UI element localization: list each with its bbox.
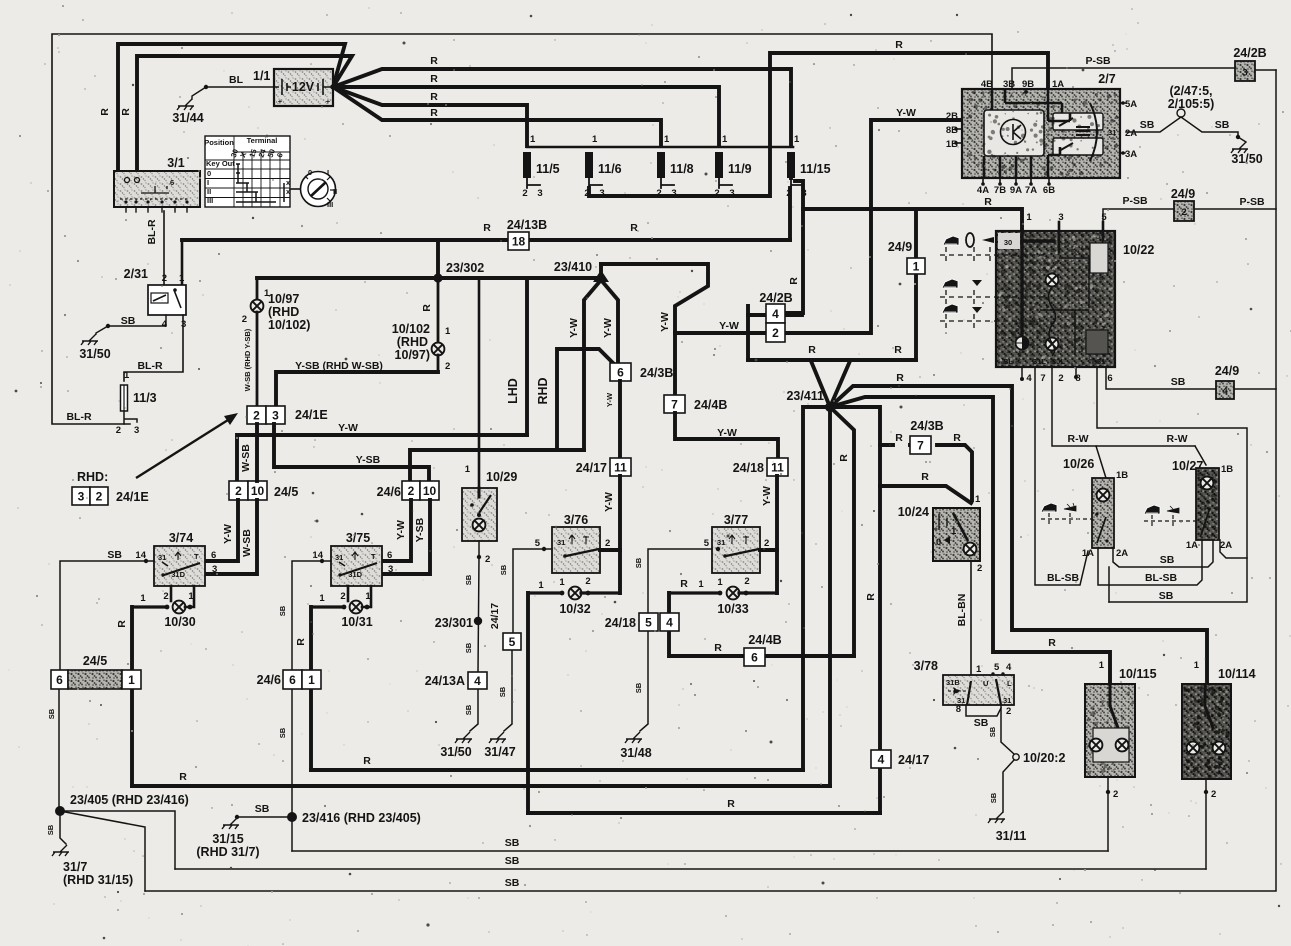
node 23/416 [287,812,297,822]
svg-text:6: 6 [1107,373,1112,384]
connector 24/5 2|10 [229,481,248,500]
wire 23/405 to SB bus2 [60,811,175,869]
wire R feed to 10/22 pin1 [803,209,1022,231]
svg-text:SB: SB [505,837,520,849]
svg-text:10/31: 10/31 [341,615,372,629]
svg-text:2: 2 [585,576,590,587]
svg-text:SB: SB [505,877,520,889]
svg-text:0: 0 [308,168,312,177]
ground 31/15 to node 23/416 [222,818,239,829]
connector 24/1E [247,406,266,424]
battery B+ node and wire BL to ground [206,86,274,88]
svg-text:10/26: 10/26 [1063,457,1094,471]
svg-text:31L: 31L [1033,357,1046,366]
svg-text:11/9: 11/9 [728,162,752,176]
svg-text:24/18: 24/18 [605,616,636,630]
wire main R line 10/97 to 23/410 [257,276,601,280]
svg-text:10/29: 10/29 [486,470,517,484]
svg-text:SB: SB [1160,554,1175,566]
svg-text:12V: 12V [292,80,315,94]
wire Y-W 24/5 pin2 to 3/74 pin6 [206,500,238,561]
svg-text:SB: SB [464,574,473,585]
ground 31/47 [489,732,506,743]
svg-text:3: 3 [1242,68,1247,79]
svg-text:2: 2 [744,576,749,587]
svg-text:2: 2 [772,326,779,340]
svg-text:1: 1 [124,370,130,381]
svg-text:6: 6 [211,550,216,561]
svg-text:7B: 7B [994,185,1006,196]
svg-text:5: 5 [994,662,1000,673]
svg-text:10/114: 10/114 [1218,667,1256,681]
svg-text:11/15: 11/15 [800,162,831,176]
window icons left of 10/22 [943,236,959,245]
svg-text:4: 4 [1026,373,1032,384]
svg-text:Y-W: Y-W [338,422,358,434]
svg-text:2: 2 [522,188,527,199]
svg-text:1B: 1B [1116,470,1128,481]
svg-text:BL-SB: BL-SB [1047,572,1079,584]
svg-text:6: 6 [751,650,758,664]
23/410 right branch Y-W [601,280,618,363]
svg-text:1: 1 [913,259,920,273]
svg-text:Y-W: Y-W [603,492,615,512]
svg-text:2: 2 [253,408,260,422]
svg-text:Y-W: Y-W [568,318,580,338]
svg-text:SB: SB [107,549,122,561]
svg-text:4: 4 [474,674,481,688]
fan wires from 23/411 [811,361,830,407]
svg-text:SB: SB [498,686,507,697]
wire 2/31 pin1 to R bus [181,240,184,285]
svg-text:1B: 1B [1221,464,1233,475]
svg-text:T: T [371,552,376,561]
wire BL-BN 10/24 to 3/78 pin1 [970,561,972,675]
svg-text:24/5: 24/5 [83,654,107,668]
node 23/302 [433,273,442,282]
svg-text:2/7: 2/7 [1098,72,1115,86]
svg-text:10: 10 [251,484,265,498]
svg-text:SB: SB [278,727,287,738]
svg-text:R: R [808,344,816,356]
svg-text:24/13B: 24/13B [507,218,547,232]
svg-text:5A: 5A [1125,99,1137,110]
svg-text:31: 31 [1108,128,1116,137]
svg-text:R: R [896,372,904,384]
svg-text:1: 1 [664,134,670,145]
svg-text:BL-R: BL-R [66,411,91,423]
svg-text:1: 1 [1194,660,1200,671]
svg-text:10: 10 [423,484,437,498]
wire SB 10/114 pin2 to bus [1205,779,1207,869]
svg-text:Y-W: Y-W [719,320,739,332]
svg-text:7: 7 [671,397,678,411]
svg-text:Y-W: Y-W [659,312,671,332]
svg-text:2: 2 [445,361,450,372]
fuse bus pin 1 line [527,146,793,149]
svg-text:(2/47:5,: (2/47:5, [1169,84,1212,98]
svg-text:III: III [207,196,213,205]
svg-text:1: 1 [140,593,146,604]
svg-text:Position: Position [204,138,234,147]
svg-text:1A: 1A [1052,79,1064,90]
svg-text:BL: BL [1003,357,1013,366]
wire SB 10/22 pin6 to 24/9 4 [1106,367,1216,389]
wire SB 2/7 2A to ground 31/50 right [1126,117,1238,136]
svg-text:24/17: 24/17 [898,753,929,767]
icons left of 10/27 [1144,505,1160,514]
svg-text:4: 4 [666,615,673,629]
svg-text:2: 2 [96,489,103,503]
svg-text:Y-SB (RHD W-SB): Y-SB (RHD W-SB) [295,360,383,372]
svg-text:23/411: 23/411 [786,389,824,403]
svg-text:P-SB: P-SB [1085,55,1111,67]
svg-text:1A: 1A [1186,540,1198,551]
svg-text:24/5: 24/5 [274,485,298,499]
svg-text:SB: SB [988,726,997,737]
svg-text:3: 3 [537,188,542,199]
svg-text:3/76: 3/76 [564,513,588,527]
svg-text:1: 1 [308,673,315,687]
svg-text:10/102: 10/102 [392,322,430,336]
inline connector 10/20:2 [1013,754,1019,760]
svg-text:Y-SB: Y-SB [414,517,426,542]
svg-text:18: 18 [512,234,526,248]
svg-text:3: 3 [272,408,279,422]
svg-text:R: R [430,107,438,119]
svg-text:1: 1 [592,134,598,145]
lamp 10/33 with wires [669,591,718,594]
svg-text:R-W: R-W [1068,433,1089,445]
wire R to 24/3B 7 [880,445,972,500]
wire 3/1 to 2/31 BL-R [163,211,165,285]
svg-text:2: 2 [408,484,415,498]
svg-text:2: 2 [764,538,769,549]
lamp 10/32 with wires [528,591,560,594]
svg-text:3: 3 [78,489,85,503]
wire 3/78 pin8 loop SB [966,705,1001,716]
svg-text:31: 31 [335,553,343,562]
svg-text:Y-W: Y-W [896,107,916,119]
svg-text:4: 4 [162,319,168,330]
svg-text:31/48: 31/48 [620,746,651,760]
node 23/405 [55,806,65,816]
wire R bus bottom via 24/6 [311,768,803,772]
svg-text:4: 4 [878,752,885,766]
svg-text:R: R [865,593,877,601]
svg-text:2: 2 [162,273,167,284]
svg-text:Y-W: Y-W [395,520,407,540]
wire battery fan to fuses R x4 [333,69,791,146]
svg-text:30L: 30L [1052,357,1065,366]
svg-text:1/1: 1/1 [253,69,270,83]
svg-text:R: R [714,642,722,654]
arrow to 24/1E [136,420,228,478]
svg-text:24/3B: 24/3B [640,366,673,380]
svg-text:24/2B: 24/2B [1233,46,1266,60]
wire 2/31 pin4 SB to ground 31/50 [108,315,166,326]
wire R bus bottom via 24/5 [132,784,830,788]
wire 10/22 inner pin to SB net right [1097,367,1247,602]
battery 1/1 [274,69,333,106]
wire W-SB 24/5 pin10 to 3/74 pin3 [206,500,257,574]
svg-text:10/22: 10/22 [1123,243,1154,257]
wire SB 10/27 2A down [1220,540,1247,558]
wire SB 23/405 to ground 31/7 [60,816,66,844]
svg-text:I: I [207,178,209,187]
svg-text:31/47: 31/47 [484,745,515,759]
wire battery to ignition feed (R) left side [118,44,345,171]
svg-text:2: 2 [1113,789,1118,800]
wire 3/77 pin2 to Y-W line [760,548,777,552]
svg-text:R: R [984,196,992,208]
svg-text:T: T [194,552,199,561]
svg-text:2B: 2B [946,111,958,122]
svg-text:1: 1 [698,579,704,590]
svg-text:11/5: 11/5 [536,162,560,176]
svg-text:6: 6 [617,365,624,379]
svg-text:24/3B: 24/3B [910,419,943,433]
svg-text:SB: SB [499,564,508,575]
svg-text:31: 31 [1097,357,1105,366]
svg-text:6: 6 [387,550,392,561]
svg-text:24/9: 24/9 [1171,187,1195,201]
svg-text:24/2B: 24/2B [759,291,792,305]
svg-text:31: 31 [1003,696,1011,705]
wire R 10/30 to 24/5 1 to R bus [130,607,134,786]
svg-text:+: + [326,97,331,106]
svg-text:R: R [680,578,688,590]
svg-text:2A: 2A [1125,128,1137,139]
svg-text:24/4B: 24/4B [748,633,781,647]
svg-text:4B: 4B [981,79,993,90]
node 23/301 [474,617,482,625]
svg-text:23/302: 23/302 [446,261,484,275]
ignition key symbol [301,172,336,207]
lamp 10/31 with wires [347,586,350,601]
dashed actuator lines 10/22 [940,247,1048,328]
svg-text:2: 2 [116,425,121,436]
svg-text:1: 1 [365,591,371,602]
svg-text:10/20:2: 10/20:2 [1023,751,1065,765]
svg-text:4: 4 [1222,386,1228,397]
svg-text:R: R [895,432,903,444]
svg-text:III: III [327,200,333,209]
svg-text:R: R [120,108,132,116]
svg-text:24/9: 24/9 [1215,364,1239,378]
svg-text:RHD:: RHD: [77,470,108,484]
svg-text:10/30: 10/30 [164,615,195,629]
svg-text:31: 31 [158,553,166,562]
wire P-SB right vertical 24/2B3 to bottom [145,70,1276,891]
svg-text:3: 3 [134,425,139,436]
23/410 left branch Y-W [584,280,601,450]
svg-text:R: R [179,771,187,783]
wire 3/76 pin2 to Y-W line [600,548,620,552]
svg-text:24/17: 24/17 [489,603,501,629]
svg-text:1: 1 [951,526,957,537]
wire SB 3/75 pin14 to 24/6 6 and 23/416 [292,561,331,851]
wire 10/33 pin1 to 24/18 4 and 24/4B 6 [669,593,854,656]
svg-text:5: 5 [535,538,541,549]
svg-text:6: 6 [289,673,296,687]
svg-text:SB: SB [278,605,287,616]
connector 24/4B 7 [664,395,685,413]
connector 24/17 4 on R line [871,750,891,768]
connector 24/3B 6 [610,363,631,381]
svg-text:BL-R: BL-R [146,219,158,244]
wire R 24/2B pin2 to 23/411 and 24/9 pin1 [748,358,916,362]
svg-text:1: 1 [1026,212,1032,223]
svg-text:SB: SB [1215,119,1230,131]
svg-text:R: R [895,39,903,51]
svg-text:(RHD: (RHD [397,335,428,349]
svg-text:R: R [953,432,961,444]
svg-text:+: + [278,97,283,106]
svg-text:Y-W: Y-W [761,486,773,506]
svg-text:R: R [788,277,800,285]
icons left of 10/26 [1041,503,1057,512]
wire Y-W 23/410 line to 24/2B pin2 and 2/7 2B [675,306,748,360]
svg-text:23/410: 23/410 [554,260,592,274]
wire R 10/32 to R bus [526,593,530,813]
ground 31/50 right [1231,142,1248,153]
wire Y-W lower horizontal to 24/6 pin2 [410,450,584,481]
wire BL-SB 10/22 pin7 to 10/26 1A [1035,367,1088,585]
svg-text:1: 1 [1099,660,1105,671]
wire Y-SB from 24/1E pin3 to 24/6 pin10 [274,424,429,481]
svg-text:31/7: 31/7 [63,860,87,874]
svg-text:3/78: 3/78 [914,659,938,673]
svg-text:SB: SB [1171,376,1186,388]
wire Y-W 24/18 to 3/77 pin2 [775,476,779,593]
svg-text:SB: SB [974,717,989,729]
svg-text:23/405 (RHD 23/416): 23/405 (RHD 23/416) [70,793,189,807]
svg-text:10/24: 10/24 [898,505,929,519]
svg-text:Y-W: Y-W [222,524,234,544]
svg-text:31/50: 31/50 [79,347,110,361]
svg-text:3/74: 3/74 [169,531,193,545]
svg-text:31/44: 31/44 [172,111,203,125]
pin 8 stub 10/22 [1075,367,1077,376]
svg-text:31: 31 [557,538,565,547]
ground 31/44 [177,99,194,110]
svg-text:RHD: RHD [536,377,550,404]
wire Y-W 24/17 to 3/76 pin2 [618,476,622,593]
svg-text:BL-BN: BL-BN [956,594,968,627]
svg-text:2/105:5): 2/105:5) [1168,97,1215,111]
svg-text:24/4B: 24/4B [694,398,727,412]
svg-text:10/115: 10/115 [1119,667,1157,681]
power window control unit 10/22 [996,231,1115,367]
svg-text:31/15: 31/15 [212,832,243,846]
svg-text:SB: SB [47,708,56,719]
wire R to 10/24 pin1 [880,486,971,503]
svg-text:2A: 2A [1116,548,1128,559]
SB bus lines bottom [292,850,1108,852]
svg-text:II: II [333,187,337,196]
svg-text:10/32: 10/32 [559,602,590,616]
svg-text:R: R [99,108,111,116]
svg-text:31/50: 31/50 [440,745,471,759]
svg-text:R: R [630,222,638,234]
svg-text:W-SB: W-SB [240,444,252,472]
svg-text:2: 2 [235,484,242,498]
svg-text:R: R [727,798,735,810]
ignition position/terminal table [205,136,290,207]
wire BL-R loop: fuse 11/3 to relay 2/7 pin 4B via outer frame [52,34,992,424]
svg-text:1: 1 [976,664,982,675]
svg-text:0: 0 [207,169,211,178]
svg-text:9B: 9B [1022,79,1034,90]
svg-text:2: 2 [485,554,490,565]
ground 31/50 left [81,334,98,345]
connector 24/17 11 [610,458,631,476]
svg-text:R: R [1048,637,1056,649]
svg-text:24/6: 24/6 [377,485,401,499]
svg-text:7: 7 [1040,373,1045,384]
node 23/411 [825,402,835,412]
svg-text:24/13A: 24/13A [425,674,465,688]
svg-text:24/18: 24/18 [733,461,764,475]
svg-text:2: 2 [242,314,247,325]
svg-text:3/1: 3/1 [167,156,184,170]
wire LHD vertical [525,278,529,435]
svg-text:R: R [838,454,850,462]
svg-text:7A: 7A [1025,185,1037,196]
svg-text:2: 2 [605,538,610,549]
connector 24/18 11 [767,458,788,476]
svg-text:8: 8 [956,704,961,715]
wire 3/78 pin2 to 10/20:2 [1001,705,1014,754]
svg-text:2/31: 2/31 [124,267,148,281]
wire Y-W 24/6 pin2 to 3/75 pin6 [382,500,411,561]
svg-text:3/77: 3/77 [724,513,748,527]
wire R-W 10/22 pin2 to lamps 10/26 10/27 [1052,367,1195,446]
svg-text:SB: SB [121,315,136,327]
svg-text:(RHD: (RHD [268,305,299,319]
wire P-SB 2/7 3B to 24/2B 3 [1012,68,1240,89]
svg-text:SB: SB [1159,590,1174,602]
ground 31/50 bottom [455,732,472,743]
wire R 10/31 to 24/6 1 to R bus [309,607,313,770]
lamp 10/30 with wires [170,586,173,601]
wire Y-SB 24/6 pin10 to 3/75 pin3 [382,500,430,574]
svg-text:I: I [327,168,329,177]
wire R bus through 24/13B [182,238,790,242]
svg-text:2: 2 [163,591,168,602]
wire fuse 11/6 output R to relay 2/7 1A [589,53,1048,196]
svg-text:6B: 6B [1043,185,1055,196]
wire Y-SB (RHD W-SB) 24/1E pin3 to 10/102 [276,372,438,406]
svg-text:10/97): 10/97) [395,348,430,362]
svg-text:24/6: 24/6 [257,673,281,687]
svg-text:II: II [207,187,211,196]
svg-text:9A: 9A [1010,185,1022,196]
svg-text:Key Out: Key Out [206,159,235,168]
svg-text:10/97: 10/97 [268,292,299,306]
svg-text:R: R [421,304,433,312]
wire Y-W 24/4B to 24/18 11 [675,413,778,458]
wire R bus bottom via 10/32 [528,811,880,815]
svg-text:BL-SB: BL-SB [1145,572,1177,584]
ground 31/11 [988,812,1005,823]
svg-text:4A: 4A [977,185,989,196]
svg-text:Y-W: Y-W [605,392,614,407]
svg-text:30: 30 [1004,238,1012,247]
svg-text:6: 6 [170,178,174,187]
svg-text:11/8: 11/8 [670,162,694,176]
